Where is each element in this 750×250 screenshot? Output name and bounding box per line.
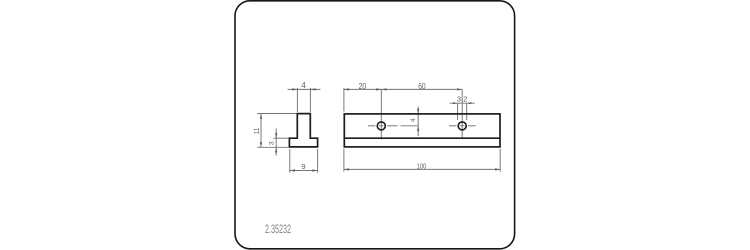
svg-text:100: 100 <box>417 162 427 171</box>
svg-text:3,2: 3,2 <box>457 95 468 104</box>
svg-text:20: 20 <box>359 81 367 91</box>
svg-text:4: 4 <box>301 80 306 90</box>
svg-text:2.35232: 2.35232 <box>265 224 291 236</box>
svg-text:3: 3 <box>268 141 275 145</box>
svg-text:9: 9 <box>301 162 305 171</box>
svg-text:4: 4 <box>410 118 417 122</box>
svg-text:60: 60 <box>418 81 426 91</box>
svg-text:11: 11 <box>254 128 261 135</box>
